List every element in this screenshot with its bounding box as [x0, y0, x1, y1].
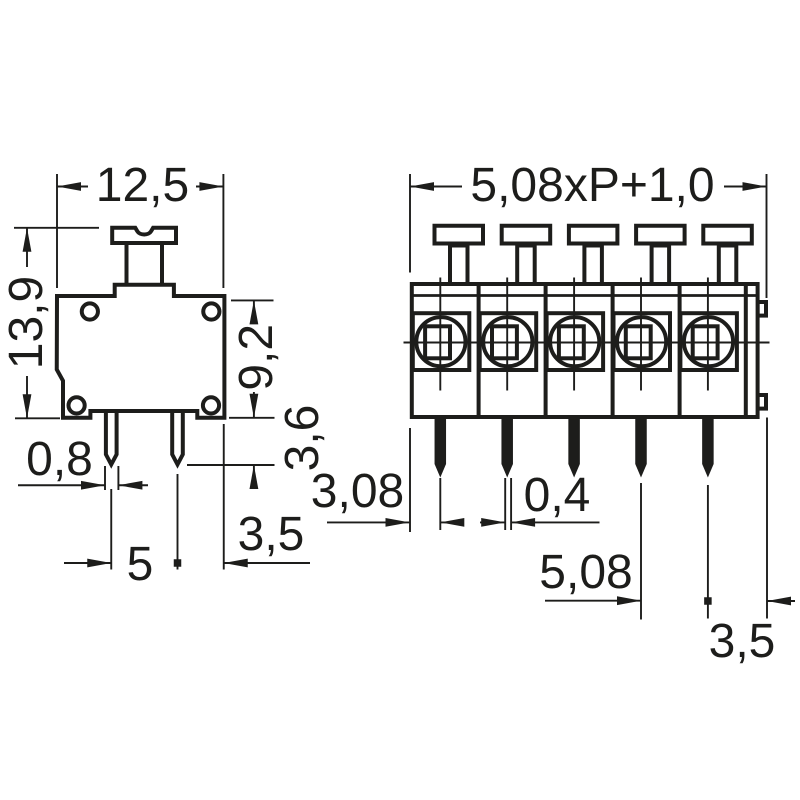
dimension 13,9 line and arrows: [26, 228, 28, 418]
svg-text:5: 5: [127, 538, 154, 591]
front view push-button stems: [450, 246, 468, 286]
cell dividers: [479, 286, 746, 415]
side view body outline: [57, 285, 225, 418]
svg-text:0,8: 0,8: [26, 433, 93, 486]
hole top-left: [82, 303, 98, 319]
front view push-button caps: [435, 226, 484, 244]
dimension 3,08 line and arrow: [327, 521, 410, 523]
dimension 0,4 arrows: [480, 521, 600, 523]
dimension 3,5 right square dot: [704, 597, 712, 605]
pin 2 centre extension line: [177, 474, 179, 570]
pin 1 centre extension line: [110, 489, 112, 570]
front view body rectangle: [412, 284, 758, 417]
dimension 0,8 extension stubs at pin edges: [105, 466, 118, 490]
pin tip extension line (3,6 lower): [187, 464, 275, 466]
cell 4 wire slot: [626, 326, 651, 358]
cell 5 wire slot: [693, 326, 718, 358]
dimension 0,8 line and arrows: [18, 484, 148, 486]
arrow at pin 1 centre: [440, 521, 463, 523]
body right edge extension line: [223, 424, 225, 570]
hole bottom-right: [203, 397, 219, 413]
dimension 5 square dot at pin 2 centre: [174, 559, 182, 567]
svg-text:3,5: 3,5: [709, 615, 776, 668]
right side tab lower: [758, 395, 766, 409]
dimension 3,6 lower arrow: [253, 465, 255, 488]
side view pin 1 (hollow): [106, 406, 117, 465]
cell 5 clamp circle: [684, 317, 733, 366]
dimension 5 line and arrow: [64, 562, 111, 564]
dimension 12,5 line and arrows: [57, 186, 223, 188]
dimension 5,08xP+1,0 line and arrows: [410, 186, 767, 188]
svg-text:5,08: 5,08: [539, 546, 632, 599]
front view upper horizontal line: [412, 294, 758, 297]
cell 2 wire slot: [492, 326, 517, 358]
dimension 5,08xP+1,0 extension lines: [410, 174, 767, 298]
svg-text:3,08: 3,08: [311, 465, 404, 518]
side view pin 2 (hollow): [172, 406, 183, 465]
dimension 9,2 extension lines: [229, 300, 275, 417]
cell 3 wire slot: [559, 326, 584, 358]
cell 5 opening square: [680, 313, 737, 370]
dimension 9,2 line and arrows: [253, 300, 255, 417]
cell 3 opening square: [547, 313, 604, 370]
right tab edge extension line: [766, 418, 768, 619]
dimension 12,5 extension lines: [57, 174, 223, 288]
hole bottom-left: [69, 397, 85, 413]
right side tab upper: [758, 302, 766, 316]
side view push-button cap with slot notch: [112, 228, 176, 243]
cell 1 opening square: [413, 313, 470, 370]
dimension 0,4 extension lines: [505, 478, 511, 530]
horizontal centreline: [404, 342, 770, 344]
dimension 3,5 left line and arrow: [224, 562, 310, 564]
svg-text:5,08xP+1,0: 5,08xP+1,0: [470, 159, 714, 212]
svg-text:0,4: 0,4: [524, 469, 591, 522]
svg-text:3,5: 3,5: [238, 508, 305, 561]
svg-text:3,6: 3,6: [276, 405, 329, 472]
cell 4 clamp circle: [617, 317, 666, 366]
pin 5 centre extension line (front): [707, 485, 709, 619]
dimension 13,9 extension lines: [14, 228, 99, 418]
dimension 3,5 right line and arrow: [767, 600, 795, 602]
body left edge lower extension line: [409, 428, 411, 532]
cell 4 opening square: [614, 313, 671, 370]
pin 1 centre extension line (front): [439, 478, 441, 530]
cell 2 opening square: [480, 313, 537, 370]
cell 2 clamp circle: [483, 317, 532, 366]
vertical cell centrelines: [440, 278, 708, 391]
svg-text:12,5: 12,5: [96, 159, 189, 212]
svg-text:13,9: 13,9: [0, 276, 53, 369]
hole top-right: [203, 303, 219, 319]
front view solder pins (solid): [435, 414, 447, 478]
svg-text:9,2: 9,2: [230, 324, 283, 391]
cell 1 clamp circle: [416, 317, 465, 366]
side view push-button stem: [127, 243, 163, 285]
cell 3 clamp circle: [550, 317, 599, 366]
cell 1 wire slot: [425, 326, 450, 358]
pin 4 centre extension line (front): [640, 483, 642, 620]
dimension 5,08 line and arrow: [545, 600, 641, 602]
